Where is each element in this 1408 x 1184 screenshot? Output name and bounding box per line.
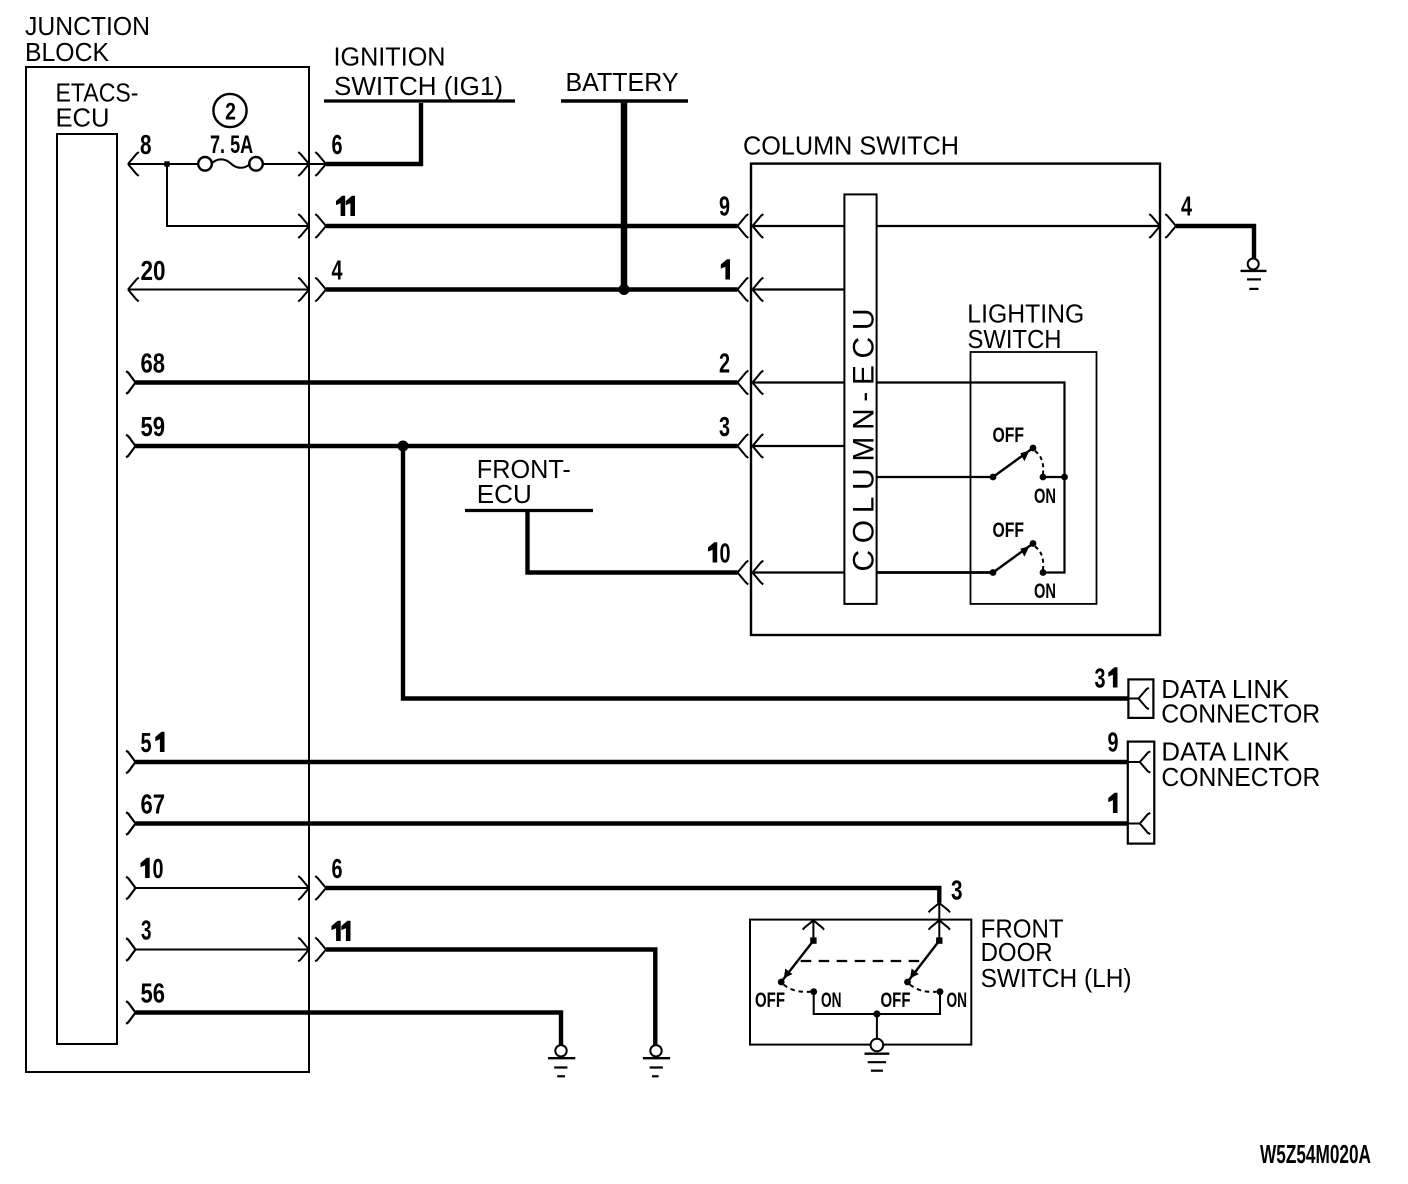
chevron pair at JB edge row 11b — [298, 938, 326, 962]
wire 68 to column switch pin 2 — [136, 380, 738, 384]
fork terminal at ETACS pin 3 — [126, 938, 135, 961]
chevron at front door switch left pin — [803, 920, 824, 929]
wire left pin to contact — [812, 920, 814, 940]
wire 20: ETACS pin 20 to JB edge — [128, 289, 309, 291]
COLUMN-ECU box — [844, 194, 876, 604]
chevron inside front door switch pin 3 — [929, 920, 950, 929]
fork terminal at ETACS pin 10 — [126, 877, 135, 900]
front door switch mechanical link dashed — [801, 960, 922, 962]
wire ON contacts to common bus — [814, 992, 940, 1014]
front door switch left dashed throw — [784, 985, 811, 992]
chevron pair at column switch edge row 3 — [738, 434, 764, 458]
svg-text:56: 56 — [141, 978, 166, 1009]
svg-text:SWITCH (IG1): SWITCH (IG1) — [334, 71, 503, 101]
node: square junction on wire 8 — [164, 161, 169, 166]
fork terminal at ETACS pin 67 — [126, 812, 135, 835]
svg-text:ON: ON — [1034, 484, 1056, 508]
wire row 3 inside column switch — [753, 445, 845, 447]
svg-text:IGNITION: IGNITION — [334, 42, 446, 72]
front door switch right tip dot — [904, 979, 911, 986]
front door switch left tip dot — [778, 979, 785, 986]
lighting switch 2 contact dot — [990, 569, 997, 576]
wire 59 branch to data link connector pin 31 — [403, 446, 1128, 699]
lighting switch 2 dashed throw — [1035, 547, 1043, 570]
svg-text:CONNECTOR: CONNECTOR — [1161, 698, 1320, 728]
arrow at ETACS pin 20 — [128, 278, 139, 302]
svg-text:0: 0 — [720, 538, 731, 569]
wire 10: FRONT-ECU to column switch pin 10 — [528, 511, 738, 573]
svg-text:6: 6 — [332, 853, 343, 884]
wire 51 to data link connector pin 9 — [136, 760, 1128, 764]
svg-text:ECU: ECU — [56, 103, 110, 133]
fuse wavy element — [212, 159, 251, 167]
chevron pair at column switch edge row 1 — [738, 278, 764, 302]
ETACS-ECU box — [57, 134, 117, 1044]
wire 6: to ignition switch — [326, 103, 421, 164]
fork terminal at ETACS pin 68 — [126, 371, 135, 394]
lighting switch 1 ON contact dot — [1040, 474, 1047, 481]
svg-text:2: 2 — [719, 348, 730, 379]
ground G2 — [548, 1045, 575, 1076]
svg-text:BLOCK: BLOCK — [25, 37, 110, 67]
wire row 2 inside column switch — [753, 381, 845, 383]
front door switch right ON contact dot — [937, 988, 944, 995]
junction dot wire 59 branch — [398, 441, 409, 452]
pin 1 label — [721, 259, 730, 279]
wire 11 to column switch pin 9 — [326, 224, 738, 228]
wire row 10 inside column switch left — [753, 571, 845, 573]
pin 11 label — [336, 196, 345, 216]
wire 59 to column switch pin 3 — [136, 444, 738, 448]
front door switch left ON contact dot — [810, 988, 817, 995]
chevron pair at column switch edge row 10 — [738, 561, 764, 585]
chevron pair at JB edge row 8 — [298, 152, 326, 176]
pin 1 terminal fork — [1128, 813, 1151, 834]
wire from COLUMN-ECU to lighting switch common — [877, 383, 1065, 573]
svg-text:3: 3 — [141, 915, 152, 946]
front door switch left contact dot — [810, 937, 816, 943]
svg-text:OFF: OFF — [881, 988, 911, 1012]
svg-text:4: 4 — [1181, 191, 1192, 222]
svg-text:3: 3 — [951, 875, 963, 906]
pin 10 label (front-ecu wire) — [708, 542, 717, 562]
front door switch right dashed throw — [910, 985, 937, 992]
svg-text:9: 9 — [1108, 727, 1119, 758]
ground G4 — [865, 1039, 890, 1071]
lighting switch 2 arm tip dot — [1030, 540, 1037, 547]
lighting switch 2 arm arrowhead — [1020, 546, 1029, 557]
svg-text:3: 3 — [1095, 663, 1106, 694]
svg-text:COLUMN-ECU: COLUMN-ECU — [848, 309, 881, 572]
lighting switch 2 arm — [993, 544, 1033, 573]
data link connector 1 box — [1128, 679, 1153, 718]
lighting switch box — [971, 352, 1097, 604]
wire 11 to ground G3 — [326, 950, 655, 1046]
wire 11 branch from square node — [167, 164, 309, 226]
svg-text:OFF: OFF — [993, 518, 1025, 542]
svg-text:68: 68 — [141, 348, 166, 379]
wire row 1 inside column switch — [753, 288, 845, 290]
svg-text:20: 20 — [141, 255, 166, 286]
svg-text:0: 0 — [153, 853, 164, 884]
svg-text:OFF: OFF — [993, 423, 1025, 447]
front door switch left arm arrowhead — [784, 969, 793, 979]
chevron pair at column switch right edge pin 4 — [1149, 214, 1176, 238]
ground G3 — [643, 1045, 670, 1076]
svg-text:2: 2 — [225, 99, 236, 126]
svg-text:ON: ON — [1034, 579, 1056, 603]
fuse 2 circle symbol — [213, 94, 246, 127]
chevron pair at JB edge row 6 — [298, 876, 326, 900]
FRONT-ECU bus bar — [465, 509, 593, 512]
wire 6 to front door switch pin 3 — [326, 888, 939, 903]
pin 1 label — [1108, 793, 1117, 813]
pin 10 label left — [141, 858, 150, 878]
chevron outside front door switch pin 3 — [929, 903, 950, 912]
svg-text:COLUMN SWITCH: COLUMN SWITCH — [743, 131, 959, 161]
chevron pair at JB edge row 11 — [298, 214, 326, 238]
wire 67 to data link connector pin 1 — [136, 821, 1128, 825]
svg-text:W5Z54M020A: W5Z54M020A — [1260, 1139, 1371, 1169]
svg-text:4: 4 — [332, 255, 343, 286]
svg-text:9: 9 — [719, 191, 730, 222]
lighting switch 1 arm tip dot — [1030, 445, 1037, 452]
data link connector 2 box — [1128, 742, 1155, 844]
junction dot on common bus — [873, 1010, 880, 1017]
chevron pair at JB edge row 20 — [298, 278, 326, 302]
fork terminal at ETACS pin 56 — [126, 1001, 135, 1024]
svg-text:5: 5 — [141, 727, 152, 758]
svg-text:6: 6 — [332, 129, 343, 160]
fork terminal at ETACS pin 59 — [126, 435, 135, 458]
battery feed wire — [621, 103, 628, 290]
ground G1 — [1241, 259, 1267, 289]
lighting switch 1 contact dot — [990, 474, 997, 481]
svg-text:ECU: ECU — [477, 479, 532, 509]
wire 4 to ground — [1176, 226, 1254, 259]
junction dot battery to wire 4 — [619, 284, 630, 295]
lighting switch 1 dashed throw — [1035, 451, 1043, 474]
svg-text:67: 67 — [141, 789, 166, 820]
svg-text:SWITCH (LH): SWITCH (LH) — [981, 963, 1132, 993]
ignition switch bus bar — [324, 99, 515, 102]
battery bus bar — [561, 99, 688, 102]
front door switch right arm — [908, 941, 940, 982]
wire row 10 to lighting switch 2 — [877, 571, 993, 574]
wire 56 to ground G2 — [136, 1013, 562, 1046]
junction dot on lighting bus — [1061, 474, 1068, 481]
svg-text:CONNECTOR: CONNECTOR — [1161, 762, 1320, 792]
svg-text:SWITCH: SWITCH — [968, 324, 1062, 354]
pin 9 terminal fork — [1128, 751, 1151, 772]
column switch box — [751, 164, 1160, 635]
pin 31 terminal fork — [1128, 688, 1149, 709]
wire COLUMN-ECU to lighting switch 1 — [877, 476, 993, 478]
wire: fuse to junction block edge — [263, 163, 327, 165]
wire 8: ETACS pin 8 to fuse — [128, 163, 199, 165]
lighting switch 2 ON contact dot — [1040, 569, 1047, 576]
wire row 9 inside column switch right part — [877, 225, 1160, 227]
front door switch right contact dot — [936, 937, 942, 943]
wire 4: JB to column switch pin 1 — [326, 287, 738, 291]
chevron pair at column switch edge row 9 — [738, 214, 764, 238]
front door switch left arm — [781, 941, 813, 982]
front door switch box — [750, 920, 971, 1045]
svg-text:8: 8 — [140, 129, 152, 160]
junction block box — [26, 67, 309, 1072]
stub to lighting switch 1 ON — [1043, 476, 1065, 478]
front door switch right arm arrowhead — [910, 969, 919, 979]
lighting switch 1 arm — [993, 448, 1033, 477]
pin 11 label lower — [332, 921, 341, 941]
svg-text:ON: ON — [947, 988, 968, 1012]
svg-text:7. 5A: 7. 5A — [210, 131, 253, 159]
lighting switch 1 arm arrowhead — [1020, 451, 1029, 462]
wire into front door switch pin 3 — [938, 903, 940, 941]
svg-text:3: 3 — [719, 411, 730, 442]
wire row 9 inside column switch left part — [753, 225, 845, 227]
svg-text:BATTERY: BATTERY — [566, 67, 679, 97]
svg-text:ON: ON — [821, 988, 842, 1012]
wire 10 thin to JB edge — [136, 887, 310, 889]
chevron pair at column switch edge row 2 — [738, 371, 764, 395]
fork terminal at ETACS pin 51 — [126, 751, 135, 774]
svg-text:59: 59 — [141, 411, 166, 442]
wire 3 thin to JB edge — [136, 949, 310, 951]
fuse terminal circle left — [198, 157, 212, 171]
svg-text:OFF: OFF — [755, 988, 785, 1012]
wire common bus to ground G4 — [876, 1014, 878, 1039]
arrow at ETACS pin 8 — [128, 152, 139, 176]
fuse terminal circle right — [249, 157, 263, 171]
